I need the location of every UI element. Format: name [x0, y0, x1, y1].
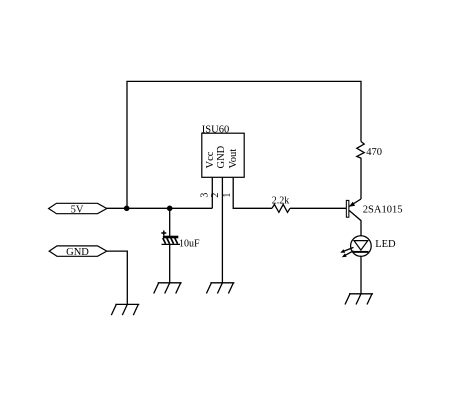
svg-text:Vcc: Vcc — [205, 151, 216, 168]
svg-text:ISU60: ISU60 — [202, 124, 229, 135]
svg-text:Vout: Vout — [228, 149, 239, 169]
svg-text:GND: GND — [66, 247, 89, 258]
svg-text:2.2k: 2.2k — [272, 195, 290, 206]
svg-text:5V: 5V — [71, 204, 84, 215]
svg-text:1: 1 — [222, 193, 233, 198]
svg-text:GND: GND — [216, 145, 227, 168]
svg-text:10uF: 10uF — [179, 238, 200, 249]
svg-text:2SA1015: 2SA1015 — [363, 205, 403, 216]
svg-text:470: 470 — [366, 147, 382, 158]
svg-text:2: 2 — [210, 193, 221, 198]
svg-text:3: 3 — [200, 193, 211, 198]
svg-text:LED: LED — [375, 239, 396, 250]
